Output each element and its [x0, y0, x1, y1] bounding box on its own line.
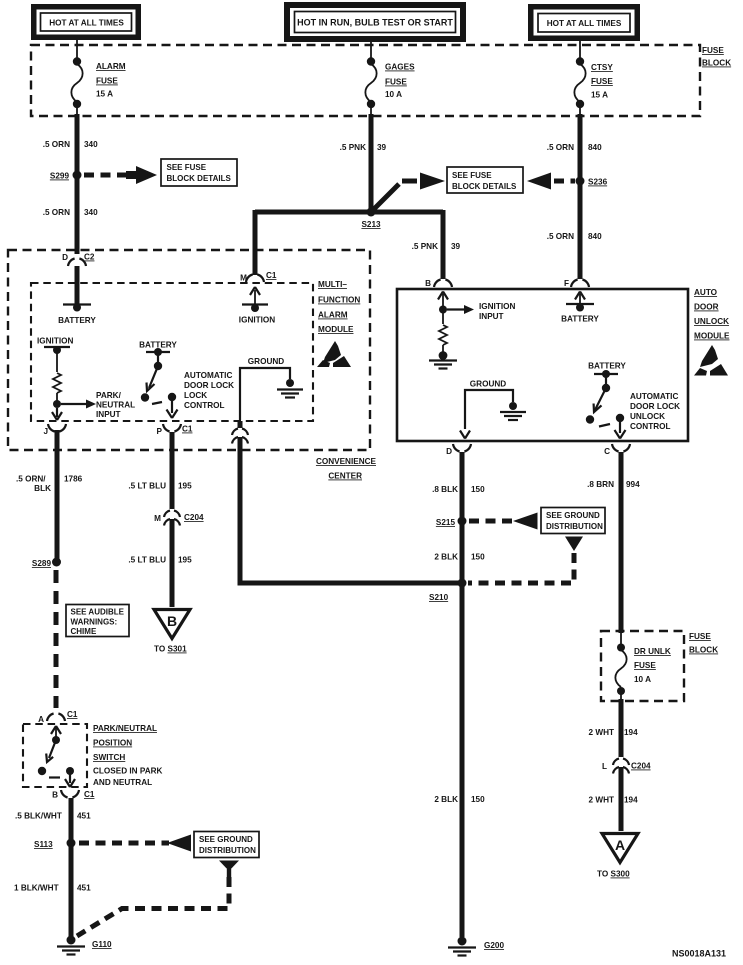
arrow to see ground distribution (lower) [167, 835, 191, 852]
svg-text:840: 840 [588, 143, 602, 152]
dashed pointer wire from S299 [84, 173, 126, 178]
svg-text:FUSE: FUSE [385, 78, 407, 87]
wire S213 horizontal distribution [255, 210, 443, 215]
node park/neutral input [53, 400, 61, 408]
ignition input arrow (pin M) [250, 287, 260, 305]
unlock control switch arm [586, 388, 624, 427]
automatic door lock lock control label [184, 371, 234, 410]
connector pin D (unlock module) [446, 444, 471, 456]
park/neutral switch label [93, 724, 163, 787]
wire .5 BLK/WHT 451 (pin B to S113) [69, 798, 74, 938]
label .5 ORN 340 upper [43, 140, 98, 149]
off-page triangle B [154, 610, 190, 654]
svg-text:INPUT: INPUT [96, 410, 121, 419]
splice S113 [34, 839, 76, 850]
wire .5 ORN 840 (ctsy fuse to S236) [578, 114, 583, 279]
connector pin B (unlock module) [425, 279, 452, 288]
svg-text:ALARM: ALARM [318, 311, 348, 320]
svg-text:C204: C204 [184, 513, 204, 522]
ESD sensitivity symbol (unlock module) [694, 345, 728, 376]
svg-text:C2: C2 [84, 253, 95, 262]
wire from middle feed into fuse block [370, 42, 372, 61]
dashed wire S289 to park/neutral switch [54, 570, 59, 708]
svg-text:AUTOMATIC: AUTOMATIC [184, 371, 232, 380]
connector C2 pin D [62, 253, 95, 267]
fuse block (lower right) dashed outline [601, 631, 684, 701]
wire pin P to C204 [170, 432, 175, 509]
connector C1 pin M [240, 271, 277, 283]
svg-text:FUNCTION: FUNCTION [318, 296, 360, 305]
svg-text:TO S301: TO S301 [154, 645, 187, 654]
ignition terminal (alarm module) [239, 304, 275, 325]
ESD sensitivity symbol (alarm module) [317, 341, 351, 367]
label .5 BLK/WHT 451 [15, 812, 91, 821]
svg-text:BATTERY: BATTERY [588, 362, 626, 371]
inline connector C204 pin L [602, 759, 651, 774]
connector C1 pin P [157, 424, 193, 436]
svg-text:SEE FUSE: SEE FUSE [452, 171, 492, 180]
svg-text:UNLOCK: UNLOCK [630, 412, 665, 421]
svg-text:AUTO: AUTO [694, 288, 718, 297]
svg-text:2 BLK: 2 BLK [434, 553, 458, 562]
svg-text:FUSE: FUSE [689, 632, 711, 641]
svg-text:.5 ORN: .5 ORN [547, 143, 574, 152]
wire left branch down to alarm module pin M [253, 210, 258, 275]
svg-text:IGNITION: IGNITION [37, 337, 73, 346]
label .5 ORN 840 lower [547, 232, 602, 241]
svg-text:HOT AT ALL TIMES: HOT AT ALL TIMES [547, 19, 622, 28]
svg-text:CENTER: CENTER [328, 472, 362, 481]
wire .8 BRN 994 (pin C to dr unlk fuse) [619, 452, 624, 633]
ground G110 [57, 936, 112, 955]
label .5 ORN/BLK 1786 [16, 475, 83, 494]
svg-text:10 A: 10 A [634, 675, 651, 684]
resistor (alarm module) [53, 350, 61, 402]
svg-text:INPUT: INPUT [479, 312, 504, 321]
svg-text:C1: C1 [67, 710, 78, 719]
power feed box HOT AT ALL TIMES (right) [528, 4, 640, 41]
svg-text:340: 340 [84, 140, 98, 149]
svg-text:A: A [615, 837, 625, 853]
svg-text:POSITION: POSITION [93, 739, 132, 748]
svg-text:CONTROL: CONTROL [184, 401, 224, 410]
svg-text:194: 194 [624, 728, 638, 737]
svg-text:NS0018A131: NS0018A131 [672, 949, 726, 959]
splice S215 [436, 517, 467, 528]
svg-text:F: F [564, 279, 569, 288]
svg-text:BLOCK DETAILS: BLOCK DETAILS [167, 174, 232, 183]
svg-text:2 WHT: 2 WHT [589, 796, 614, 805]
inline connector on ground lead [232, 421, 248, 444]
svg-text:SEE AUDIBLE: SEE AUDIBLE [71, 608, 125, 617]
label .8 BRN 994 [587, 480, 640, 489]
multi-function alarm module inner dashed box [31, 283, 313, 421]
svg-text:LOCK: LOCK [184, 391, 207, 400]
wire .5 LT BLU 195 (C204 to triangle B) [170, 519, 175, 607]
battery terminal (lock control switch) [139, 341, 177, 371]
svg-text:DOOR LOCK: DOOR LOCK [184, 381, 234, 390]
fuse DR UNLK 10A [615, 633, 671, 701]
svg-text:HOT AT ALL TIMES: HOT AT ALL TIMES [49, 19, 124, 28]
svg-text:DOOR: DOOR [694, 303, 719, 312]
wire from left feed into fuse block [76, 40, 78, 61]
connector pin F (unlock module) [564, 279, 589, 288]
label 1 BLK/WHT 451 [14, 884, 91, 893]
label .5 LT BLU 195 (lower) [128, 556, 192, 565]
resistor (unlock module) [439, 313, 447, 352]
svg-text:BLOCK: BLOCK [689, 646, 718, 655]
svg-text:C1: C1 [84, 790, 95, 799]
svg-text:HOT IN RUN, BULB TEST OR START: HOT IN RUN, BULB TEST OR START [297, 18, 453, 28]
battery terminal (unlock module pin F) [561, 292, 599, 324]
wire 2 WHT 194 (fuse to C204) [619, 699, 624, 757]
arrow down to pin P [167, 400, 178, 418]
svg-text:840: 840 [588, 232, 602, 241]
label 2 WHT 194 (lower) [589, 796, 639, 805]
battery terminal (alarm module left) [58, 304, 96, 326]
svg-text:D: D [62, 253, 68, 262]
internal ground (unlock module ignition) [429, 351, 457, 368]
splice S299 [50, 171, 82, 181]
svg-text:MODULE: MODULE [694, 332, 730, 341]
fuse block label [702, 46, 731, 68]
auto door unlock module box [397, 289, 688, 441]
svg-text:IGNITION: IGNITION [239, 316, 275, 325]
svg-text:CTSY: CTSY [591, 63, 613, 72]
svg-text:1786: 1786 [64, 475, 83, 484]
wire .8 BLK 150 / 2 BLK 150 (pin D to G200) [460, 452, 465, 937]
svg-text:S213: S213 [361, 220, 381, 229]
fuse ALARM 15A [71, 57, 125, 116]
svg-text:451: 451 [77, 812, 91, 821]
ground terminal (unlock module) [465, 380, 526, 430]
svg-text:B: B [52, 791, 58, 800]
svg-text:CLOSED IN PARK: CLOSED IN PARK [93, 767, 163, 776]
svg-text:2 WHT: 2 WHT [589, 728, 614, 737]
svg-text:GROUND: GROUND [248, 357, 284, 366]
svg-text:PARK/: PARK/ [96, 391, 122, 400]
dashed pointer wire from S236 [554, 179, 575, 184]
svg-text:MULTI–: MULTI– [318, 280, 347, 289]
svg-text:NEUTRAL: NEUTRAL [96, 401, 135, 410]
svg-text:B: B [167, 613, 177, 629]
svg-text:A: A [38, 715, 44, 724]
svg-text:39: 39 [451, 242, 461, 251]
svg-text:S210: S210 [429, 593, 449, 602]
svg-text:2 BLK: 2 BLK [434, 795, 458, 804]
svg-text:.5 ORN: .5 ORN [43, 208, 70, 217]
splice S289 [32, 558, 61, 569]
convenience center outer dashed box [8, 250, 370, 450]
label .5 ORN 840 upper [547, 143, 602, 152]
svg-text:WARNINGS:: WARNINGS: [71, 618, 118, 627]
convenience center label [316, 457, 377, 481]
svg-text:GROUND: GROUND [470, 380, 506, 389]
note box SEE FUSE BLOCK DETAILS (middle) [447, 167, 523, 193]
fuse CTSY 15A [574, 57, 613, 116]
svg-text:C: C [604, 447, 610, 456]
svg-text:AUTOMATIC: AUTOMATIC [630, 392, 678, 401]
svg-text:BLOCK: BLOCK [702, 59, 731, 68]
svg-text:194: 194 [624, 796, 638, 805]
svg-text:150: 150 [471, 485, 485, 494]
inline connector C204 pin M [154, 511, 204, 526]
svg-text:S113: S113 [34, 840, 53, 849]
svg-text:195: 195 [178, 482, 192, 491]
svg-text:ALARM: ALARM [96, 62, 126, 71]
dashed pointer wire from S113 [79, 841, 169, 846]
svg-text:195: 195 [178, 556, 192, 565]
auto door unlock module label [694, 288, 730, 341]
svg-text:CONTROL: CONTROL [630, 422, 670, 431]
svg-text:FUSE: FUSE [634, 661, 656, 670]
svg-text:.8 BLK: .8 BLK [432, 485, 458, 494]
svg-text:DISTRIBUTION: DISTRIBUTION [199, 846, 256, 855]
svg-text:MODULE: MODULE [318, 325, 354, 334]
svg-text:.5 ORN: .5 ORN [547, 232, 574, 241]
multi-function alarm module label [318, 280, 360, 334]
splice S236 [576, 177, 608, 187]
arrow to see ground distribution (upper) [513, 513, 538, 530]
svg-text:C1: C1 [182, 425, 193, 434]
svg-text:.5 LT BLU: .5 LT BLU [128, 556, 166, 565]
arrow down to pin J [52, 408, 62, 420]
ignition input branch (unlock module) [438, 292, 515, 322]
fuse GAGES 10A [365, 57, 415, 116]
dashed link from triangle to G110 [77, 877, 229, 936]
svg-text:G110: G110 [92, 940, 112, 949]
svg-text:DR UNLK: DR UNLK [634, 647, 671, 656]
svg-text:L: L [602, 762, 607, 771]
automatic door lock unlock control label [630, 392, 680, 431]
svg-text:BATTERY: BATTERY [561, 315, 599, 324]
label .5 LT BLU 195 (upper) [128, 482, 192, 491]
label .5 PNK 39 (branch to pin B) [412, 242, 461, 251]
svg-text:.5 ORN/: .5 ORN/ [16, 475, 46, 484]
wire pin D to battery terminal [75, 266, 80, 306]
svg-text:BATTERY: BATTERY [58, 316, 96, 325]
wire .5 PNK 39 (gages fuse to S213) [369, 114, 374, 212]
arrow down to pin C [615, 421, 626, 439]
svg-text:TO S300: TO S300 [597, 870, 630, 879]
svg-text:C204: C204 [631, 762, 651, 771]
svg-text:S236: S236 [588, 178, 608, 187]
svg-text:SWITCH: SWITCH [93, 753, 125, 762]
svg-text:BLOCK DETAILS: BLOCK DETAILS [452, 182, 517, 191]
svg-text:15 A: 15 A [96, 90, 113, 99]
note box SEE AUDIBLE WARNINGS: CHIME [66, 605, 129, 637]
svg-text:FUSE: FUSE [96, 77, 118, 86]
svg-text:150: 150 [471, 795, 485, 804]
lock control switch arm [141, 366, 176, 404]
fuse block label (lower right) [689, 632, 718, 655]
arrow to see fuse block details (left) [126, 166, 157, 184]
ground wire down from convenience center [238, 437, 243, 586]
svg-text:G200: G200 [484, 941, 504, 950]
ground distribution pointer triangle (upper) [565, 537, 583, 552]
ground G200 [448, 937, 504, 956]
arrow to park/neutral input label [61, 391, 135, 419]
svg-text:D: D [446, 447, 452, 456]
svg-text:.5 PNK: .5 PNK [340, 143, 366, 152]
svg-text:CONVENIENCE: CONVENIENCE [316, 457, 377, 466]
svg-text:.5 PNK: .5 PNK [412, 242, 438, 251]
fuse block (top) dashed outline [31, 45, 700, 116]
svg-text:PARK/NEUTRAL: PARK/NEUTRAL [93, 724, 157, 733]
svg-text:.5 LT BLU: .5 LT BLU [128, 482, 166, 491]
label 2 WHT 194 (upper) [589, 728, 639, 737]
svg-text:AND NEUTRAL: AND NEUTRAL [93, 778, 152, 787]
svg-text:S299: S299 [50, 172, 70, 181]
svg-text:S215: S215 [436, 518, 456, 527]
svg-text:FUSE: FUSE [591, 77, 613, 86]
svg-text:340: 340 [84, 208, 98, 217]
svg-text:451: 451 [77, 884, 91, 893]
connector pin C (unlock module) [604, 444, 630, 456]
ground wire horizontal to S210 [238, 581, 463, 586]
svg-text:SEE GROUND: SEE GROUND [546, 511, 600, 520]
dashed pointer wire from S213 [371, 181, 417, 212]
svg-text:.8 BRN: .8 BRN [587, 480, 614, 489]
off-page triangle A [597, 834, 638, 879]
dashed link from triangle to S210 [468, 553, 574, 583]
svg-text:UNLOCK: UNLOCK [694, 317, 729, 326]
svg-text:994: 994 [626, 480, 640, 489]
svg-text:.5 ORN: .5 ORN [43, 140, 70, 149]
arrow to see fuse block details (middle) [420, 173, 445, 190]
label 2 BLK 150 (lower) [434, 795, 485, 804]
splice S213 [361, 208, 381, 230]
arrow down to pin D [460, 431, 470, 439]
svg-text:DISTRIBUTION: DISTRIBUTION [546, 522, 603, 531]
label .5 PNK 39 [340, 143, 387, 152]
svg-text:SEE FUSE: SEE FUSE [167, 163, 207, 172]
power feed box HOT IN RUN, BULB TEST OR START (middle) [284, 2, 466, 42]
note box SEE GROUND DISTRIBUTION (lower) [194, 832, 259, 858]
svg-text:S289: S289 [32, 559, 52, 568]
ignition terminal (park/neutral sense) [37, 337, 73, 355]
svg-text:P: P [157, 427, 163, 436]
svg-text:SEE GROUND: SEE GROUND [199, 835, 253, 844]
ground terminal (alarm module) [240, 357, 303, 420]
connector C1 pin J [43, 424, 66, 436]
svg-text:BLK: BLK [34, 484, 51, 493]
wire .5 ORN/BLK 1786 (pin J to S289) [55, 430, 60, 562]
svg-text:15 A: 15 A [591, 91, 608, 100]
label .8 BLK 150 [432, 485, 485, 494]
wire .5 ORN 340 (fuse to S299) [75, 114, 80, 254]
svg-text:IGNITION: IGNITION [479, 302, 515, 311]
svg-text:.5 BLK/WHT: .5 BLK/WHT [15, 812, 62, 821]
svg-text:CHIME: CHIME [71, 627, 97, 636]
svg-text:FUSE: FUSE [702, 46, 724, 55]
svg-text:M: M [154, 514, 161, 523]
svg-text:J: J [43, 427, 48, 436]
svg-text:39: 39 [377, 143, 387, 152]
label .5 ORN 340 lower [43, 208, 98, 217]
battery terminal (unlock control switch) [588, 362, 626, 393]
arrow from S236 pointing left into note box [527, 173, 551, 190]
dashed pointer wire from S215 [469, 519, 512, 524]
svg-text:1 BLK/WHT: 1 BLK/WHT [14, 884, 59, 893]
ground distribution pointer triangle (lower) [219, 861, 239, 872]
wire right branch down to unlock module pin B [441, 210, 446, 279]
svg-text:DOOR LOCK: DOOR LOCK [630, 402, 680, 411]
connector C1 pin A (park/neutral switch) [38, 710, 78, 724]
park/neutral switch contacts [38, 726, 75, 787]
park/neutral position switch dashed box [23, 724, 87, 787]
wire 2 WHT 194 (C204 to connector A) [619, 767, 624, 831]
svg-text:GAGES: GAGES [385, 63, 415, 72]
wire from right feed into fuse block [579, 41, 581, 61]
splice S210 [429, 579, 467, 603]
svg-text:C1: C1 [266, 271, 277, 280]
note box SEE FUSE BLOCK DETAILS (left) [161, 159, 237, 186]
note box SEE GROUND DISTRIBUTION (upper) [541, 508, 605, 534]
connector C1 pin B (park/neutral switch) [52, 790, 95, 800]
label 2 BLK 150 (upper) [434, 553, 485, 562]
svg-text:B: B [425, 279, 431, 288]
power feed box HOT AT ALL TIMES (left) [31, 4, 141, 40]
svg-text:150: 150 [471, 553, 485, 562]
svg-text:10 A: 10 A [385, 90, 402, 99]
